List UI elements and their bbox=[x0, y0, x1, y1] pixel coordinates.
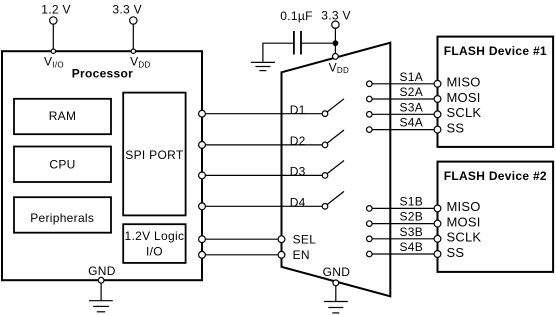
ground (processor) bbox=[89, 301, 113, 312]
wire S2A bbox=[369, 98, 437, 100]
svg-text:MISO: MISO bbox=[447, 199, 481, 214]
svg-text:FLASH Device #2: FLASH Device #2 bbox=[444, 169, 547, 183]
switch pin S2A bbox=[367, 96, 373, 102]
flash1 pin MOSI bbox=[434, 96, 441, 103]
switch pin S1A bbox=[367, 81, 373, 87]
flash1 pin SCLK bbox=[434, 111, 441, 118]
switch pin EN bbox=[278, 251, 285, 258]
switch pole D1 bbox=[322, 111, 328, 117]
svg-text:SCLK: SCLK bbox=[447, 105, 482, 120]
svg-text:D3: D3 bbox=[290, 165, 306, 179]
svg-text:D1: D1 bbox=[290, 103, 306, 117]
svg-text:SPI PORT: SPI PORT bbox=[125, 148, 184, 162]
switch pin S1B bbox=[367, 206, 373, 212]
pin VDD (switch) bbox=[333, 54, 339, 60]
switch pin S4A bbox=[367, 127, 373, 133]
svg-text:1.2 V: 1.2 V bbox=[41, 3, 71, 17]
FLASH Device 2 block bbox=[438, 162, 554, 272]
flash2 pin MOSI bbox=[434, 220, 441, 227]
svg-text:EN: EN bbox=[293, 248, 310, 262]
svg-text:SEL: SEL bbox=[293, 233, 317, 247]
1.2V Logic I/O block bbox=[123, 224, 185, 263]
svg-text:SS: SS bbox=[447, 120, 465, 135]
junction node bbox=[333, 40, 339, 46]
CPU block bbox=[14, 147, 111, 183]
switch pole D4 bbox=[322, 204, 328, 210]
wire S4B bbox=[369, 253, 437, 255]
processor pin D3 bbox=[199, 172, 206, 179]
terminal 3.3V (processor) bbox=[130, 17, 137, 24]
FLASH Device 1 block bbox=[438, 37, 554, 147]
pin VI/O bbox=[51, 49, 55, 53]
processor pin D1 bbox=[199, 110, 206, 117]
wire S1A bbox=[369, 83, 437, 85]
svg-text:S4A: S4A bbox=[400, 116, 424, 130]
wire 1.2V to VI/O bbox=[52, 24, 54, 52]
switch pin S3B bbox=[367, 236, 373, 242]
svg-text:SCLK: SCLK bbox=[447, 230, 482, 245]
processor pin EN bbox=[199, 251, 206, 258]
svg-text:S2B: S2B bbox=[400, 210, 424, 224]
wire SEL bbox=[202, 238, 282, 240]
svg-text:MISO: MISO bbox=[447, 75, 481, 90]
svg-text:GND: GND bbox=[323, 265, 351, 279]
switch lever D2 bbox=[327, 130, 344, 143]
switch lever D1 bbox=[327, 99, 344, 112]
svg-text:S3B: S3B bbox=[400, 225, 424, 239]
wire D1 bbox=[202, 113, 322, 115]
svg-text:3.3 V: 3.3 V bbox=[112, 3, 142, 17]
capacitor lead left bbox=[263, 43, 294, 62]
svg-text:FLASH Device #1: FLASH Device #1 bbox=[444, 44, 547, 58]
terminal 3.3V (switch) bbox=[332, 21, 339, 28]
processor GND pin bbox=[98, 277, 104, 283]
wire GND (switch) bbox=[335, 286, 337, 302]
switch pin S3A bbox=[367, 112, 373, 118]
svg-text:I/O: I/O bbox=[146, 245, 163, 259]
svg-text:S1A: S1A bbox=[400, 70, 424, 84]
ground (capacitor) bbox=[251, 62, 275, 70]
svg-text:S4B: S4B bbox=[400, 240, 424, 254]
wire D2 bbox=[202, 144, 322, 146]
wire S2B bbox=[369, 223, 437, 225]
svg-text:Processor: Processor bbox=[72, 67, 133, 81]
switch pin SEL bbox=[278, 236, 285, 243]
flash2 pin MISO bbox=[434, 205, 441, 212]
capacitor plates bbox=[294, 31, 301, 55]
svg-text:MOSI: MOSI bbox=[447, 90, 481, 105]
terminal 1.2V bbox=[50, 17, 57, 24]
svg-text:0.1µF: 0.1µF bbox=[280, 9, 312, 23]
wire D4 bbox=[202, 205, 322, 207]
svg-text:RAM: RAM bbox=[49, 109, 77, 123]
wire D3 bbox=[202, 174, 322, 176]
svg-text:Peripherals: Peripherals bbox=[30, 211, 94, 225]
flash1 pin MISO bbox=[434, 80, 441, 87]
switch pole D2 bbox=[322, 142, 328, 148]
wire 3.3V to VDD (switch) bbox=[334, 28, 336, 54]
processor block bbox=[2, 51, 202, 280]
switch GND pin bbox=[333, 280, 339, 286]
svg-text:3.3 V: 3.3 V bbox=[321, 8, 351, 22]
wire S1B bbox=[369, 207, 437, 209]
pin VDD (processor) bbox=[131, 49, 135, 53]
svg-text:CPU: CPU bbox=[49, 157, 75, 171]
wire S3A bbox=[369, 113, 437, 115]
svg-text:SS: SS bbox=[447, 245, 465, 260]
svg-text:GND: GND bbox=[88, 264, 116, 278]
svg-text:S3A: S3A bbox=[400, 100, 424, 114]
capacitor lead right bbox=[301, 42, 333, 44]
wire GND (processor) bbox=[100, 283, 102, 301]
analog switch body U1 bbox=[282, 43, 391, 297]
wire S3B bbox=[369, 238, 437, 240]
switch lever D4 bbox=[327, 191, 344, 204]
switch pin S2B bbox=[367, 221, 373, 227]
svg-text:S2A: S2A bbox=[400, 85, 424, 99]
switch pin S4B bbox=[367, 251, 373, 257]
processor pin SEL bbox=[199, 236, 206, 243]
SPI PORT block bbox=[123, 93, 185, 216]
switch lever D3 bbox=[327, 161, 344, 174]
flash1 pin SS bbox=[434, 126, 441, 133]
wire S4A bbox=[369, 129, 437, 131]
processor pin D4 bbox=[199, 203, 206, 210]
RAM block bbox=[14, 99, 111, 134]
wire 3.3V to VDD (processor) bbox=[132, 24, 134, 52]
switch pole D3 bbox=[322, 173, 328, 179]
svg-text:D4: D4 bbox=[290, 196, 306, 210]
processor pin D2 bbox=[199, 142, 206, 149]
svg-text:1.2V Logic: 1.2V Logic bbox=[125, 229, 185, 243]
wire EN bbox=[202, 254, 282, 256]
svg-text:S1B: S1B bbox=[400, 194, 424, 208]
flash2 pin SCLK bbox=[434, 235, 441, 242]
Peripherals block bbox=[14, 197, 111, 233]
svg-text:MOSI: MOSI bbox=[447, 214, 481, 229]
flash2 pin SS bbox=[434, 251, 441, 258]
ground (switch) bbox=[324, 302, 348, 313]
svg-text:D2: D2 bbox=[290, 134, 306, 148]
